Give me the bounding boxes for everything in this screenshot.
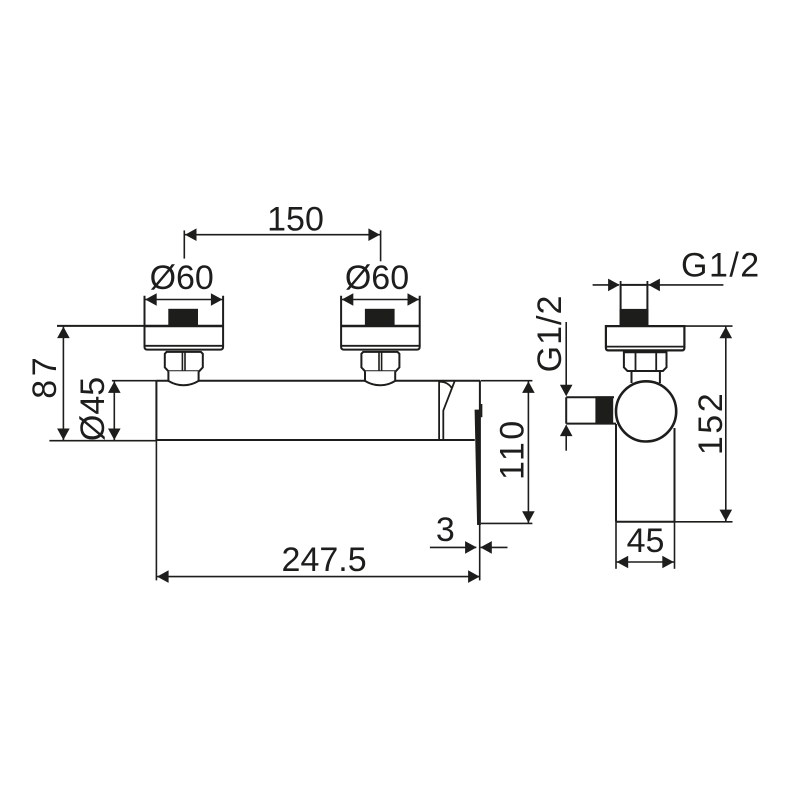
right escutcheon wall-plane line xyxy=(341,325,420,327)
arrowhead 150 left xyxy=(185,228,197,241)
arrowhead 110 top xyxy=(522,381,535,393)
arrowhead 45 left xyxy=(617,556,629,569)
arrowhead 247.5 right xyxy=(468,570,480,583)
left inlet escutcheon xyxy=(145,296,224,350)
dimension line Ø45 xyxy=(113,381,115,441)
dimension line 45 xyxy=(616,561,675,563)
svg-text:110: 110 xyxy=(494,418,532,480)
leader line G1/2 top-right xyxy=(648,284,723,286)
arrowhead 110 bottom xyxy=(522,511,535,523)
left escutcheon base line xyxy=(145,345,224,347)
svg-text:G1/2: G1/2 xyxy=(681,247,761,285)
dimension line 152 xyxy=(725,326,727,522)
svg-text:G1/2: G1/2 xyxy=(531,295,569,373)
leader line G1/2 side lower xyxy=(565,425,567,450)
extension line 45 right xyxy=(674,522,676,569)
side connection nut xyxy=(624,352,667,371)
svg-text:Ø60: Ø60 xyxy=(150,259,214,297)
dimension line 150 xyxy=(184,234,380,236)
right connection nut xyxy=(361,352,399,371)
svg-text:87: 87 xyxy=(26,354,64,399)
arrowhead G1/2 side top xyxy=(560,385,573,397)
right escutcheon base line xyxy=(341,345,420,347)
stub left tick xyxy=(620,281,622,285)
side view escutcheon xyxy=(606,326,685,350)
leader line G1/2 top-left xyxy=(593,284,619,286)
arrowhead 3 right xyxy=(480,541,492,554)
side nut facet line a xyxy=(635,352,637,371)
arrowhead Ø60 right-left xyxy=(342,293,354,306)
right nut facet line a xyxy=(378,352,380,371)
dimension line 247.5 xyxy=(156,576,480,578)
arrowhead Ø60 left-left xyxy=(145,293,157,306)
left connection nut xyxy=(165,352,203,371)
arrowhead 150 right xyxy=(368,228,380,241)
svg-text:Ø60: Ø60 xyxy=(345,259,409,297)
arrowhead G1/2 side bottom xyxy=(560,425,573,437)
mixer body (front view) xyxy=(156,380,480,382)
dimension line 87 xyxy=(62,326,64,441)
arrowhead Ø60 right-right xyxy=(408,293,420,306)
extension line 152 top xyxy=(684,325,732,327)
svg-text:247.5: 247.5 xyxy=(282,541,367,579)
dimension line 110 xyxy=(527,381,529,524)
extension line bottom (87 / Ø45) xyxy=(49,440,156,442)
side escutcheon base line xyxy=(606,346,685,348)
arrowhead 152 top xyxy=(720,327,733,339)
right nut facet line b xyxy=(381,352,383,371)
stub right tick xyxy=(646,281,648,285)
cap dome profile xyxy=(443,381,454,440)
dimension line 3 left xyxy=(430,546,476,548)
arrowhead G1/2 stub right xyxy=(648,279,660,292)
right collar xyxy=(365,371,395,385)
extension line 247.5 right xyxy=(479,525,481,580)
leader line G1/2 side upper xyxy=(565,322,567,395)
right inlet escutcheon xyxy=(341,296,420,350)
left nut facet line a xyxy=(181,352,183,371)
top supply stub (side) xyxy=(621,285,648,326)
cap boundary line xyxy=(438,381,440,440)
extension line 110 top xyxy=(481,380,533,382)
arrowhead Ø45 bottom xyxy=(108,429,121,441)
arrowhead 87 bottom xyxy=(57,429,70,441)
arrowhead 87 top xyxy=(57,327,70,339)
right inlet thread nipple (black) xyxy=(365,309,395,326)
dimension line Ø60 (left) xyxy=(145,299,224,301)
arrowhead Ø45 top xyxy=(108,381,121,393)
dimension line Ø60 (right) xyxy=(341,299,420,301)
left escutcheon wall-plane line xyxy=(145,325,224,327)
left inlet thread nipple (black) xyxy=(168,309,198,326)
shower outlet stub (side) xyxy=(566,397,616,423)
extension line 150 right xyxy=(380,230,382,261)
valve cartridge circle xyxy=(616,381,676,441)
arrowhead Ø60 left-right xyxy=(211,293,223,306)
handle blade xyxy=(475,410,480,525)
svg-text:Ø45: Ø45 xyxy=(74,377,112,441)
arrowhead 45 right xyxy=(662,556,674,569)
side nut facet line b xyxy=(655,352,657,371)
extension line 247.5 left xyxy=(155,440,157,580)
handle lever nub xyxy=(481,404,483,417)
arrowhead 152 bottom xyxy=(720,510,733,521)
extension line 110 bottom xyxy=(481,522,532,524)
side body xyxy=(615,424,617,522)
svg-text:45: 45 xyxy=(627,522,665,560)
dimension line 3 right xyxy=(481,546,508,548)
arrowhead G1/2 stub left xyxy=(608,279,620,292)
svg-text:152: 152 xyxy=(692,391,730,455)
left nut facet line b xyxy=(184,352,186,371)
extension line Ø45 top xyxy=(112,380,156,382)
extension line 150 left xyxy=(183,230,185,258)
extension line 87 top (wall plane) xyxy=(57,325,145,327)
side collar xyxy=(632,371,660,383)
left collar xyxy=(168,371,198,385)
extension line 45 left xyxy=(615,522,617,569)
svg-text:3: 3 xyxy=(436,511,455,549)
svg-text:150: 150 xyxy=(267,200,324,238)
body end edge / handle blade right edge xyxy=(479,381,481,525)
arrowhead 247.5 left xyxy=(157,570,169,583)
arrowhead 3 left xyxy=(465,541,477,554)
cap shoulder arc xyxy=(440,382,452,388)
extension line 152 bottom xyxy=(675,521,733,523)
